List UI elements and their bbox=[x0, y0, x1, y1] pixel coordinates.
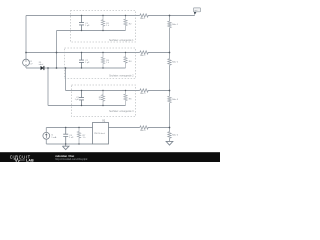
wire source bottom stub bbox=[25, 66, 27, 68]
wire vertical module1-bottom to diode wire bbox=[56, 31, 58, 69]
svg-text:1 pF: 1 pF bbox=[85, 62, 90, 64]
bus vertical wire segments bbox=[169, 16, 171, 142]
resistor Rbit1 horizontal row1 bbox=[140, 14, 148, 17]
footer bar bbox=[0, 152, 220, 162]
svg-text:Rbit 1: Rbit 1 bbox=[140, 17, 146, 20]
svg-text:Rbit 2: Rbit 2 bbox=[140, 54, 146, 57]
wire rail2 right bbox=[148, 52, 170, 54]
module3: resistor R6 bbox=[124, 91, 127, 106]
module4: capacitor C4 bbox=[63, 128, 68, 145]
footer logo LAB with squiggle bbox=[14, 158, 25, 161]
module1: resistor R1 bbox=[101, 16, 104, 31]
wire vertical source feed bbox=[25, 16, 27, 60]
resistor R ladder 3 vertical bbox=[168, 96, 171, 102]
svg-text:Rbit 4: Rbit 4 bbox=[140, 129, 146, 132]
wire rail4 right bbox=[148, 127, 170, 129]
wire module4 source stubs bbox=[45, 128, 47, 145]
svg-text:PMOS ideal: PMOS ideal bbox=[94, 133, 105, 135]
resistor R ladder 2 vertical bbox=[168, 59, 171, 65]
module internals (cap, res, res2) for modules 1-3 bbox=[79, 16, 127, 106]
svg-text:http://circuitlab.com/c6wy4pd: http://circuitlab.com/c6wy4pd bbox=[55, 158, 88, 161]
module2: resistor R4 bbox=[124, 53, 127, 69]
svg-text:Sechster: erzeugende 2: Sechster: erzeugende 2 bbox=[109, 75, 134, 78]
dashed box module 1 (discrete crosspoint 1) bbox=[71, 11, 136, 43]
dashed box module 2 (discrete crosspoint 2) bbox=[65, 48, 136, 79]
resistor Rbit4 horizontal row4 bbox=[140, 126, 148, 129]
wire rail4 module4 top bbox=[46, 127, 92, 129]
current source I1 bbox=[43, 132, 50, 139]
component labels bbox=[29, 17, 178, 139]
wire rail1 right to flag bbox=[148, 15, 195, 17]
junction dots bbox=[25, 15, 170, 145]
wire rail3 top bbox=[66, 90, 140, 92]
svg-text:Rdiv 1: Rdiv 1 bbox=[172, 24, 179, 26]
svg-text:1 mA: 1 mA bbox=[51, 136, 56, 139]
wire vertical diode wire to module3 bottom bbox=[47, 68, 49, 106]
wire rail2 top bbox=[26, 52, 140, 54]
module3: capacitor C3 bbox=[79, 91, 84, 106]
module2: resistor R3 bbox=[101, 53, 104, 69]
ground module4 bbox=[62, 144, 69, 150]
svg-text:1 pF: 1 pF bbox=[85, 25, 90, 27]
wire rail1 top bbox=[26, 15, 140, 17]
component junction dots bbox=[81, 15, 82, 16]
svg-text:1 nF: 1 nF bbox=[69, 137, 74, 139]
svg-text:1 pF: 1 pF bbox=[75, 99, 80, 101]
subcircuit box X1 bbox=[93, 123, 109, 145]
svg-text:Sechster: erzeugende 1: Sechster: erzeugende 1 bbox=[109, 39, 134, 42]
svg-text:Rbit 3: Rbit 3 bbox=[140, 92, 146, 95]
svg-text:Sechster: erzeugende 3: Sechster: erzeugende 3 bbox=[109, 110, 134, 113]
diode D1 bbox=[41, 66, 44, 70]
svg-text:LAB: LAB bbox=[26, 159, 34, 163]
wire module4 bottom rail bbox=[46, 143, 92, 145]
svg-text:Rdiv 3: Rdiv 3 bbox=[172, 99, 179, 101]
module3: resistor R5 bbox=[101, 91, 104, 106]
resistor Rbit3 horizontal row3 bbox=[140, 89, 148, 92]
module2: capacitor C2 bbox=[79, 53, 84, 69]
resistor R ladder 4 vertical bbox=[168, 132, 171, 138]
svg-text:ideal: ideal bbox=[39, 64, 44, 66]
output flag bbox=[194, 12, 197, 15]
ground ladder bottom bbox=[166, 141, 173, 145]
wire bottom rail module1 bbox=[57, 30, 126, 32]
module4: resistor R7 bbox=[77, 128, 80, 145]
wire bottom rail module3 bbox=[48, 105, 126, 107]
svg-text:out: out bbox=[195, 9, 198, 12]
voltage source V1 bbox=[23, 59, 30, 66]
resistor Rbit2 horizontal row2 bbox=[140, 51, 148, 54]
wire vertical diode wire to module3 top bbox=[65, 68, 67, 91]
svg-text:Rdiv 2: Rdiv 2 bbox=[172, 61, 179, 63]
components: strokes slightly darker bbox=[140, 14, 173, 145]
dashed box module 3 (discrete crosspoint 3) bbox=[72, 85, 136, 117]
resistor R ladder 1 vertical bbox=[168, 21, 171, 27]
svg-text:Rdiv 4: Rdiv 4 bbox=[172, 134, 179, 136]
module1: resistor R2 bbox=[124, 16, 127, 31]
module1: capacitor C1 bbox=[79, 16, 84, 31]
wire bottom rail module2 / diode wire bbox=[26, 67, 126, 69]
wire rail3 right bbox=[148, 90, 170, 92]
wire rail4 box to resistor bbox=[109, 127, 140, 129]
